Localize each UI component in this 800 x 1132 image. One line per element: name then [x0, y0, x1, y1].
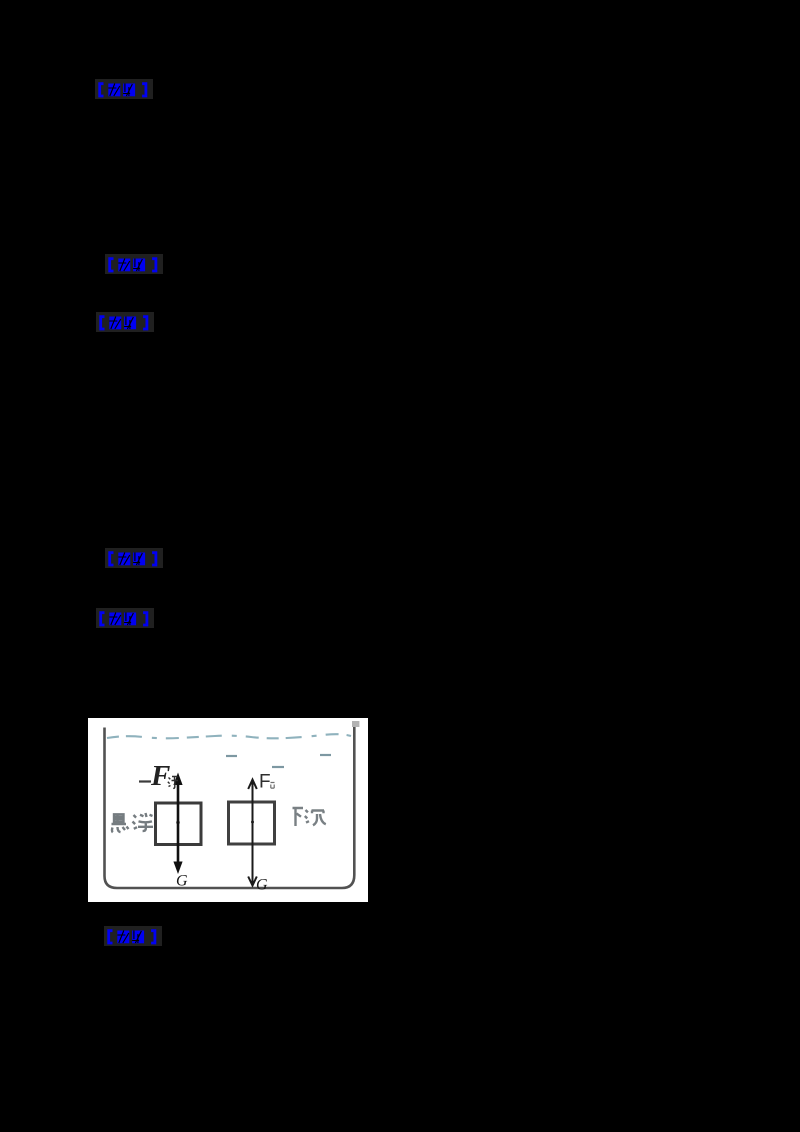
tag 4 blue label [105, 548, 163, 568]
left block square [156, 803, 202, 845]
right up arrow (F) [252, 781, 254, 822]
left center dot [176, 821, 179, 824]
container walls [105, 727, 355, 888]
tag 1 blue label [95, 79, 153, 99]
dash a [226, 755, 237, 757]
left up arrow (F float) [177, 784, 180, 823]
tag 3 blue label [96, 312, 154, 332]
right block square [229, 802, 275, 844]
dash b [320, 754, 331, 756]
right center dot [251, 821, 254, 824]
handle square [352, 721, 359, 727]
word 悬浮 [112, 813, 154, 832]
underscore before F [139, 780, 151, 782]
svg-text:G: G [256, 877, 268, 894]
word 下沉 [293, 808, 326, 827]
svg-text:F: F [150, 760, 170, 792]
tag 2 blue label [105, 254, 163, 274]
diagram image block [88, 718, 368, 902]
dash c [272, 766, 284, 768]
right F subscript marks [271, 783, 275, 789]
left F subscript (CJK blob) [168, 776, 178, 788]
water surface wavy dashes [107, 734, 351, 738]
svg-text:G: G [176, 873, 188, 890]
left down arrow (G) [177, 823, 180, 863]
tag 6 blue label [104, 926, 162, 946]
svg-text:F: F [259, 772, 271, 793]
tag 5 blue label [96, 608, 154, 628]
right down arrow (G) [252, 822, 254, 884]
